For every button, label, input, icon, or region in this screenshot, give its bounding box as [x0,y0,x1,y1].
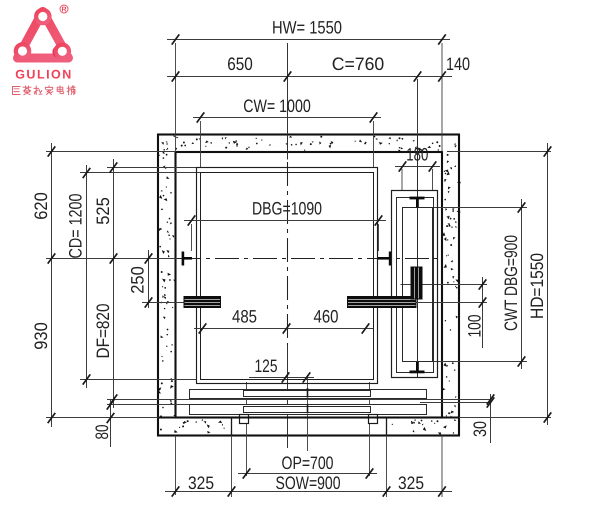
svg-text:125: 125 [255,356,278,376]
dim 80 [92,399,114,447]
extension line OP left [246,382,248,476]
extension line rail bracket right [390,302,487,304]
extension line HW right [441,43,443,152]
rail bracket left [184,296,222,308]
svg-text:620: 620 [31,192,51,220]
extension line OP right [369,382,371,476]
dim 325 / SOW=900 / 325 [165,473,452,497]
wall concrete hatch left [157,151,177,431]
door jamb left [231,418,233,436]
extension line C centre [417,79,419,135]
extension line 180 left [401,169,403,190]
door shoe left [240,415,249,424]
extension line SOW left [231,436,233,498]
dim 620 / 930 [31,143,55,427]
extension line car top outer [107,167,197,169]
landing sill line left [46,417,158,419]
dim DBG=1090 [184,199,386,226]
wall concrete hatch top [161,135,457,153]
door sill band upper [190,390,427,399]
car wall outer [197,168,378,384]
extension line cwt rail bottom [433,361,527,363]
extension line CW right [373,121,375,168]
cwt guide rail bottom [410,362,425,373]
dim 180 [395,145,440,172]
extension line cwt rail top [433,207,527,209]
dim HW=1550 [167,18,450,45]
svg-text:525: 525 [93,197,113,225]
svg-text:OP=700: OP=700 [282,453,334,473]
shaft wall inner outline [176,152,443,418]
svg-text:460: 460 [314,307,339,327]
counterweight frame mid [397,198,434,373]
svg-text:325: 325 [188,473,214,493]
extension line SOW right [386,436,388,498]
door centreline [307,375,309,451]
dim OP=700 [238,453,377,479]
landing sill line right [459,417,551,419]
dim 485 / 460 [194,307,373,334]
svg-text:180: 180 [406,145,428,165]
counterweight frame outer [392,191,438,378]
door shoe right [369,415,378,424]
dim CW=1000 [193,96,381,123]
logo Chinese tagline [13,86,76,95]
door panel lower [244,407,371,413]
car wall inner [201,173,374,380]
svg-text:GULION: GULION [15,68,73,82]
vertical centreline top stub [287,43,289,160]
wall concrete hatch bottom-left [173,419,225,434]
extension line 180 right [432,169,434,190]
door panel upper [244,391,371,397]
extension line shaft top right [447,151,551,153]
dim 650 / C=760 / 140 [167,54,470,82]
svg-text:250: 250 [128,266,148,294]
svg-text:30: 30 [470,421,490,437]
svg-text:HW= 1550: HW= 1550 [272,18,342,38]
horizontal centreline left stub [46,258,177,260]
svg-text:CW= 1000: CW= 1000 [243,96,311,116]
svg-text:R: R [61,7,66,14]
svg-text:140: 140 [446,54,470,74]
extension line sill 30 lower [420,402,492,404]
extension line band B top [107,404,189,406]
dim 100 [465,277,487,348]
svg-text:485: 485 [232,307,257,327]
dim 250 [128,250,153,308]
vertical centreline bottom stub [287,345,289,448]
counterweight block [411,267,423,300]
door panel joint upper [307,388,309,398]
extension line shaft top left [46,151,176,153]
door sill band lower [190,405,427,415]
svg-text:CWT DBG=900: CWT DBG=900 [501,235,521,331]
shaft wall outer outline [158,135,459,436]
svg-text:325: 325 [398,473,424,493]
svg-text:CD= 1200: CD= 1200 [66,194,86,259]
extension line 325 right [441,436,443,498]
landing sill across opening [158,416,459,418]
extension line DBG left [191,224,193,251]
extension line cwt 100 upper [401,284,488,286]
svg-text:100: 100 [465,315,485,338]
svg-text:HD=1550: HD=1550 [527,253,547,319]
extension line 325 left [175,436,177,496]
guide rail left [182,252,192,266]
svg-text:DBG=1090: DBG=1090 [252,199,322,219]
counterweight centreline [417,79,419,378]
rail bracket right [347,296,417,308]
dim HD=1550 [527,143,551,425]
extension line rail bracket left [142,302,184,304]
dim CD=1200 [66,165,91,388]
horizontal centreline dashed [177,258,442,260]
svg-text:930: 930 [31,322,51,350]
svg-text:650: 650 [227,54,253,74]
extension line DBG right [378,224,380,251]
svg-text:SOW=900: SOW=900 [276,473,341,493]
dim 125 [249,356,314,383]
logo GULION [15,5,73,82]
wall concrete hatch right [441,154,462,434]
door jamb right [386,418,388,436]
guide rail right [378,252,391,266]
dim 525 / DF=820 [93,159,117,408]
extension line sill DF [107,399,492,401]
extension line car top inner [80,172,201,174]
cwt guide rail top [410,197,425,208]
extension line CW left [200,121,202,168]
dim CWT DBG=900 [501,199,525,369]
extension line HW left [175,43,177,152]
wall concrete hatch bottom-right [392,419,442,436]
extension line car bottom [80,379,197,381]
svg-text:80: 80 [92,425,112,440]
dim 30 [470,394,494,443]
svg-text:C=760: C=760 [332,54,385,74]
door panel joint lower [307,404,309,413]
counterweight frame inner [403,208,433,362]
vertical centreline dashed [287,162,289,345]
svg-text:DF=820: DF=820 [93,304,113,359]
